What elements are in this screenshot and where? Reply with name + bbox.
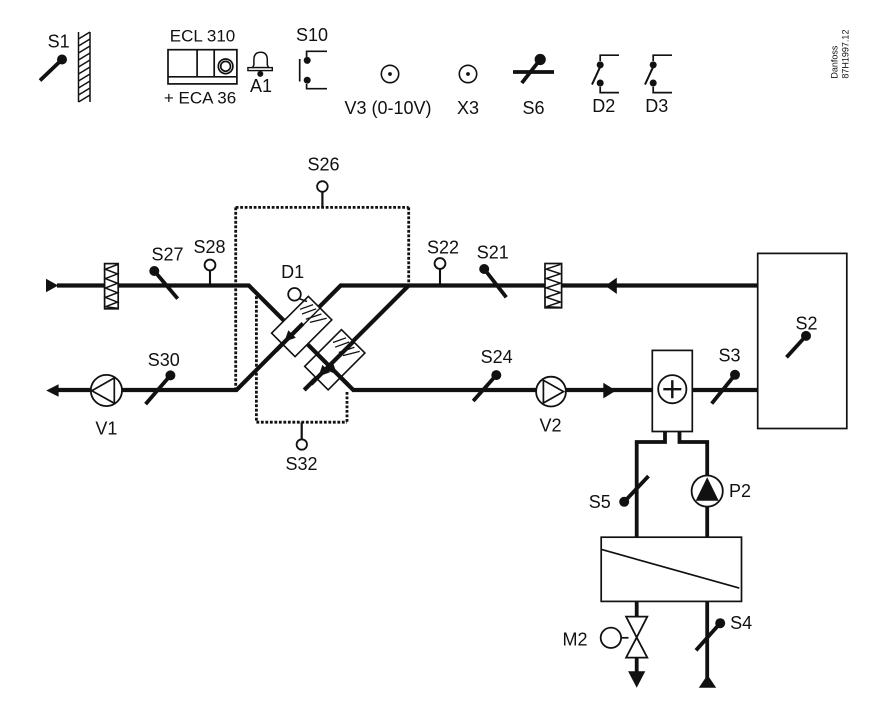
svg-text:X3: X3 — [457, 98, 479, 118]
doc number Danfoss 87H1997.12 — [830, 30, 851, 79]
svg-text:S21: S21 — [477, 243, 509, 263]
extract bypass diagonal g — [304, 286, 409, 391]
pipe below coil left — [635, 601, 639, 617]
svg-text:S2: S2 — [795, 314, 817, 334]
svg-text:M2: M2 — [562, 630, 587, 650]
svg-text:S26: S26 — [307, 155, 339, 175]
svg-text:ECL 310: ECL 310 — [170, 27, 236, 46]
svg-text:S24: S24 — [481, 347, 513, 367]
pump P2 — [692, 476, 751, 507]
svg-text:S27: S27 — [151, 244, 183, 264]
relay contact D3 — [645, 55, 672, 116]
wall (hatched) — [79, 32, 91, 102]
output V3 (0-10V) — [344, 65, 431, 118]
pipe left (supply to coil) — [637, 432, 665, 538]
svg-text:S4: S4 — [730, 613, 752, 633]
pipe + arrow below valve — [628, 658, 645, 688]
svg-text:D2: D2 — [592, 96, 615, 116]
exhaust outlet arrow — [46, 384, 58, 396]
fan V2 — [536, 377, 566, 436]
filter right — [545, 264, 562, 308]
sensor S27 — [149, 244, 183, 298]
svg-text:+ ECA 36: + ECA 36 — [164, 89, 236, 108]
terminal X3 — [457, 65, 479, 118]
alarm bell A1 — [248, 52, 272, 96]
svg-text:V2: V2 — [539, 416, 561, 436]
svg-text:D3: D3 — [645, 96, 668, 116]
sensor S21 — [477, 243, 509, 298]
svg-text:V3 (0-10V): V3 (0-10V) — [344, 98, 431, 118]
sensor S22 — [427, 238, 459, 286]
svg-text:D1: D1 — [281, 262, 304, 282]
fan V1 — [91, 375, 122, 439]
supply flow through block 2 with arrow — [317, 354, 348, 385]
sensor S4 — [696, 613, 752, 650]
svg-text:S6: S6 — [522, 98, 544, 118]
sensor S3 — [712, 346, 741, 404]
svg-text:S30: S30 — [148, 350, 180, 370]
svg-text:Danfoss: Danfoss — [830, 45, 840, 79]
dashed box S26 — [236, 207, 409, 388]
switch S10 — [296, 25, 328, 89]
supply duct arrow (pointing right) — [603, 383, 616, 399]
dashed box S32 — [256, 296, 347, 422]
sensor S32 — [285, 422, 317, 474]
svg-text:S28: S28 — [193, 237, 225, 257]
svg-text:S1: S1 — [48, 32, 70, 52]
svg-text:S22: S22 — [427, 238, 459, 258]
svg-text:P2: P2 — [729, 481, 751, 501]
pipe right (return from coil) — [680, 432, 708, 538]
sensor S26 — [307, 155, 339, 208]
svg-text:A1: A1 — [250, 76, 272, 96]
svg-text:S5: S5 — [589, 492, 611, 512]
filter left — [105, 264, 119, 309]
heat exchanger block 2 — [305, 330, 365, 390]
damper D1 — [281, 262, 307, 302]
electric heater unit — [652, 350, 692, 431]
heat exchanger block 1 — [272, 296, 332, 356]
heating coil (heat exchanger) — [601, 537, 741, 601]
extract flow through block 2 with arrow — [311, 342, 354, 385]
sensor S28 — [193, 237, 225, 286]
supply duct (top-left to bottom-right) — [57, 286, 758, 391]
sensor S1 — [40, 32, 70, 81]
room box S2 — [758, 253, 847, 428]
sensor S6 — [513, 54, 554, 118]
controller ECL 310 + ECA 36 — [164, 27, 237, 108]
svg-text:S3: S3 — [718, 346, 740, 366]
extract duct arrow (pointing left) — [605, 278, 617, 294]
sensor S5 — [589, 476, 649, 512]
sensor S30 — [146, 350, 180, 404]
pipe + arrow below coil right — [699, 601, 716, 687]
supply inlet arrow — [46, 279, 58, 292]
extract flow through block 1 with arrow — [276, 324, 303, 351]
relay contact D2 — [592, 55, 619, 116]
valve M2 — [562, 617, 647, 658]
svg-text:V1: V1 — [95, 419, 117, 439]
extract duct (top-right to bottom-left) — [58, 286, 758, 391]
sensor S24 — [473, 347, 512, 401]
svg-text:S10: S10 — [296, 25, 328, 45]
svg-text:87H1997.12: 87H1997.12 — [841, 30, 851, 79]
svg-text:S32: S32 — [285, 454, 317, 474]
